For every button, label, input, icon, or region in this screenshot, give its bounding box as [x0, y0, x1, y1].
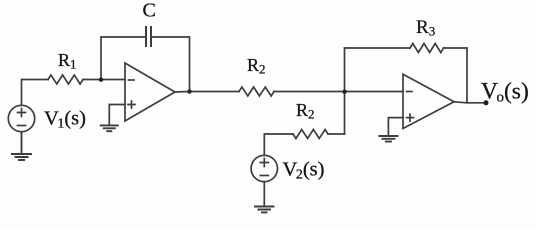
svg-text:Vo(s): Vo(s)	[481, 79, 529, 106]
svg-text:V1(s): V1(s)	[44, 108, 86, 132]
svg-text:V2(s): V2(s)	[283, 159, 325, 183]
svg-text:C: C	[143, 0, 156, 22]
svg-text:R3: R3	[416, 17, 435, 39]
svg-text:R2: R2	[296, 100, 315, 122]
svg-text:R2: R2	[247, 55, 266, 77]
svg-text:R1: R1	[58, 50, 77, 72]
